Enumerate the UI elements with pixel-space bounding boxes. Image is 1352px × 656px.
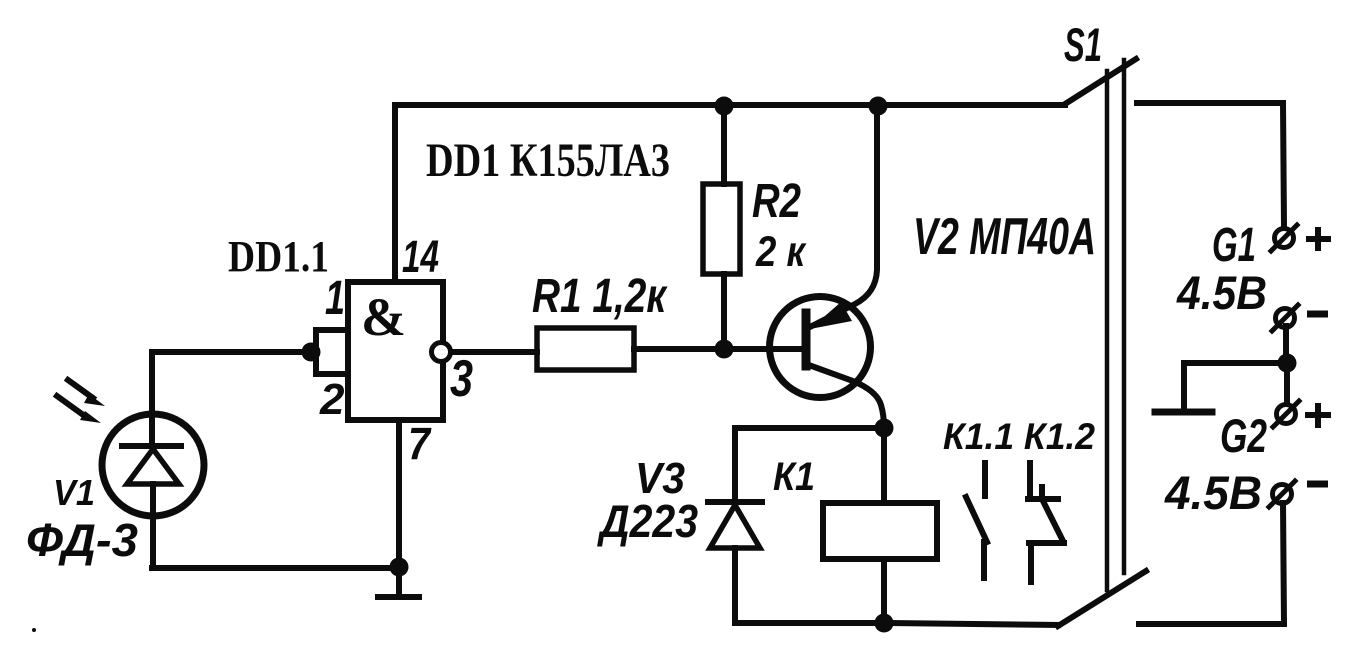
wire photodiode to bottom [152, 484, 399, 568]
transistor V2 base bar [802, 313, 811, 366]
diode V3 cathode bar [708, 499, 762, 505]
wire top rail from pin14 corner to switch S1 [395, 102, 1065, 108]
ground [378, 567, 419, 597]
terminal G1 plus [1275, 229, 1294, 248]
light arrow heads [80, 394, 105, 423]
node top rail R2 junction [715, 97, 734, 116]
wire mid junction to G2 plus [1284, 368, 1290, 404]
wire from photodiode to gate input [152, 349, 309, 355]
svg-text:G2: G2 [1220, 409, 1267, 462]
wire collector junction to relay K1 [881, 428, 887, 503]
wire switch to G1 plus [1137, 103, 1284, 227]
photodiode V1 triangle [127, 449, 179, 484]
wire R1 to base junction [634, 346, 803, 352]
resistor R1 [537, 328, 634, 370]
transistor V2 emitter wire to top rail [808, 106, 877, 328]
node top rail emitter junction [869, 97, 888, 116]
transistor V2 emitter arrow (PNP) [810, 302, 852, 329]
wire input bracket pins 1 and 2 [316, 330, 348, 374]
wire relay bottom to bottom rail [881, 559, 887, 623]
wire diode V3 to bottom rail [732, 548, 738, 623]
transistor Q/V2 circle [770, 297, 871, 398]
label G2 minus sign [1307, 481, 1328, 488]
svg-text:2 к: 2 к [755, 228, 807, 276]
svg-text:К1.1 К1.2: К1.1 К1.2 [943, 416, 1095, 457]
wire G1 minus to mid junction [1283, 326, 1289, 360]
wire top rail to R2 [721, 106, 727, 184]
node input junction [302, 343, 321, 362]
photodiode V1 cathode bar [122, 443, 181, 449]
diode V3 triangle [710, 505, 760, 548]
switch S1 top pole diagonal [1065, 59, 1136, 104]
node ground junction [390, 558, 409, 577]
wire output pin 3 to R1 [451, 349, 537, 355]
transistor V2 collector wire [806, 364, 884, 428]
photodiode V1 circle [102, 414, 204, 516]
wire collector junction to diode V3 branch [735, 428, 884, 500]
node inverter bubble on pin 3 [432, 343, 451, 362]
label G2 plus sign [1305, 403, 1331, 428]
wire R2 bottom to base junction [721, 274, 727, 349]
label G1 plus sign [1306, 227, 1331, 251]
svg-text:DD1 К155ЛА3: DD1 К155ЛА3 [426, 134, 670, 187]
label G1 minus sign [1307, 311, 1328, 318]
wire pin 14 vertical [392, 105, 398, 282]
node collector junction [875, 419, 894, 438]
svg-text:2: 2 [319, 375, 345, 424]
svg-text:7: 7 [408, 418, 432, 469]
op-amp/gate DD1.1 body [348, 282, 443, 420]
wire mid junction tap [1184, 363, 1287, 409]
svg-text:G1: G1 [1212, 219, 1256, 272]
contact K1.2 [1028, 463, 1064, 582]
switch S1 bottom pole diagonal [1058, 571, 1146, 626]
contact K1.1 [966, 463, 987, 578]
light arrow 1 [68, 380, 93, 398]
resistor R2 [703, 184, 740, 274]
svg-text:V1: V1 [53, 472, 95, 513]
wire gate input corner down to photodiode [149, 352, 155, 446]
node bottom rail relay junction [875, 614, 894, 633]
svg-text:V2 МП40А: V2 МП40А [913, 208, 1096, 266]
terminal G1 minus [1276, 309, 1295, 328]
svg-text:Д223: Д223 [596, 495, 698, 547]
wire gate pin 7 down [396, 420, 402, 567]
svg-text:4.5В: 4.5В [1176, 266, 1267, 319]
switch S1 linkage line right [1122, 60, 1127, 573]
svg-text:3: 3 [450, 350, 473, 408]
svg-text:1: 1 [325, 272, 345, 325]
relay K1 coil [823, 503, 937, 559]
node base junction [715, 340, 734, 359]
speck bottom left [32, 628, 36, 632]
terminal G2 plus [1277, 405, 1296, 424]
svg-text:14: 14 [402, 231, 439, 282]
svg-text:S1: S1 [1064, 18, 1102, 71]
wire bottom rail [735, 623, 1058, 625]
light arrow 2 [57, 396, 82, 414]
svg-text:R2: R2 [752, 175, 801, 228]
svg-text:ФД-3: ФД-3 [26, 514, 138, 566]
svg-text:4.5В: 4.5В [1164, 466, 1262, 519]
svg-text:К1: К1 [773, 455, 815, 499]
svg-text:R1 1,2к: R1 1,2к [532, 270, 668, 323]
wire G2 minus to bottom rail [1139, 503, 1284, 624]
svg-text:&: & [361, 287, 406, 347]
node battery mid junction [1278, 354, 1297, 373]
terminal G2 minus [1273, 485, 1292, 504]
mid tap end bar [1155, 409, 1212, 416]
svg-text:DD1.1: DD1.1 [228, 232, 329, 281]
switch S1 linkage line left [1105, 71, 1110, 590]
